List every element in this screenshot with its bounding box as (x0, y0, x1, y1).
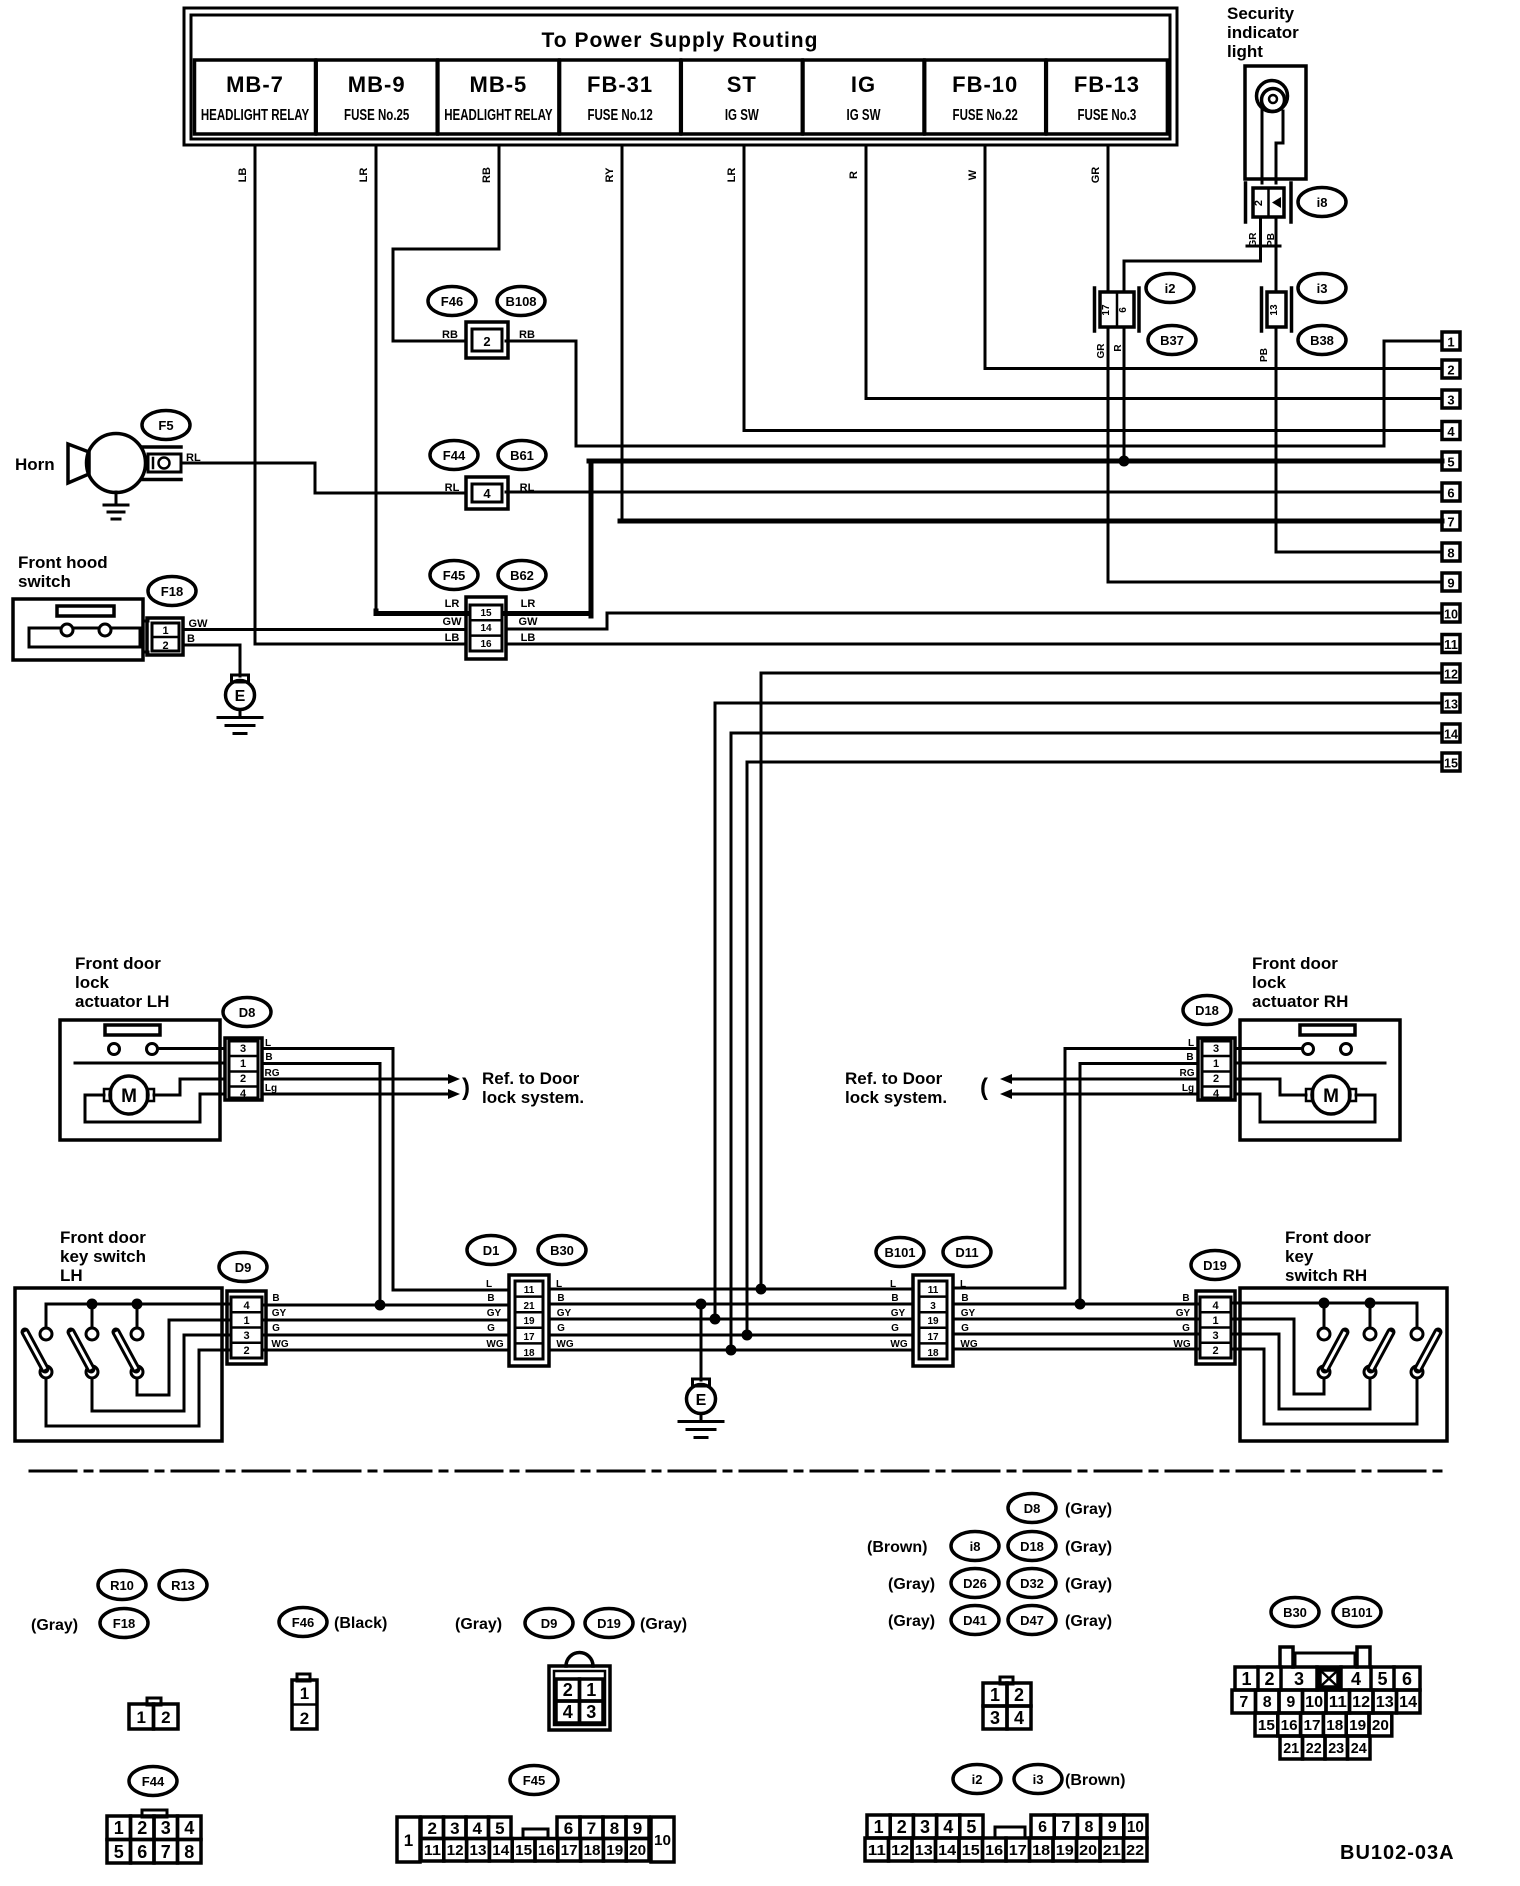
oval B30 (538, 1236, 586, 1265)
power cell MB-9 (316, 60, 437, 134)
svg-text:14: 14 (480, 623, 492, 634)
svg-text:G: G (891, 1323, 899, 1334)
svg-text:15: 15 (515, 1842, 532, 1859)
security indicator light box (1245, 66, 1306, 179)
svg-text:8: 8 (1447, 546, 1454, 561)
wire LB from MB-7 down (255, 145, 466, 644)
svg-text:RB: RB (519, 329, 535, 341)
svg-text:3: 3 (243, 1330, 249, 1342)
svg-text:GY: GY (487, 1308, 502, 1319)
svg-text:(Gray): (Gray) (1065, 1501, 1112, 1518)
oval F44 bottom (129, 1767, 177, 1796)
bus WG row mid section (549, 1349, 913, 1352)
pinout B30/B101 row2 (1232, 1690, 1420, 1713)
svg-text:G: G (272, 1323, 280, 1334)
svg-text:RL: RL (520, 482, 535, 494)
svg-text:8: 8 (184, 1842, 194, 1862)
key switch RH sw1 wire to GY (1231, 1319, 1324, 1394)
svg-text:Front door: Front door (60, 1228, 146, 1247)
key switch LH switch 1 contacts (40, 1328, 52, 1378)
svg-text:B108: B108 (505, 294, 536, 309)
junction terminal-14 riser (726, 1345, 737, 1356)
actuator RH motor right wire (1235, 1094, 1375, 1122)
svg-text:RL: RL (445, 482, 460, 494)
svg-text:5: 5 (1447, 455, 1454, 470)
oval D32 (1008, 1569, 1056, 1598)
svg-text:4: 4 (943, 1817, 953, 1837)
wire to terminal 5 (589, 459, 1442, 464)
svg-text:GR: GR (1090, 167, 1102, 184)
svg-text:WG: WG (890, 1339, 907, 1350)
svg-text:19: 19 (1349, 1717, 1366, 1734)
key switch RH switch 3 lever (1418, 1332, 1438, 1369)
connector F46/B108 box (466, 322, 508, 358)
svg-text:(Gray): (Gray) (1065, 1539, 1112, 1556)
svg-text:5: 5 (495, 1819, 504, 1838)
svg-text:2: 2 (563, 1680, 573, 1700)
svg-text:WG: WG (486, 1339, 503, 1350)
key switch LH bus junction sw2 (87, 1299, 98, 1310)
oval B108 (497, 287, 545, 316)
actuator RH slot (1300, 1025, 1355, 1035)
svg-text:1: 1 (990, 1685, 1000, 1705)
front hood switch contact a (61, 624, 73, 636)
svg-text:D18: D18 (1195, 1003, 1219, 1018)
key switch LH switch 2 contacts (86, 1328, 98, 1378)
key switch LH stem sw3 (136, 1304, 139, 1328)
oval D1 (467, 1236, 515, 1265)
svg-text:B: B (557, 1293, 564, 1304)
svg-text:light: light (1227, 42, 1263, 61)
oval B101 bottom (1333, 1598, 1381, 1627)
svg-text:14: 14 (1399, 1694, 1417, 1711)
oval i2 (1146, 274, 1194, 303)
bus B row left section (262, 1304, 509, 1307)
actuator RH box (1240, 1020, 1400, 1140)
thick riser joining LR to terminal-5 line (589, 461, 594, 616)
pinout B30/B101 keyway (1320, 1670, 1338, 1687)
svg-text:key: key (1285, 1247, 1314, 1266)
svg-text:3: 3 (930, 1301, 936, 1312)
svg-text:18: 18 (1326, 1717, 1343, 1734)
svg-text:F44: F44 (443, 448, 466, 463)
actuator RH contact wire (1235, 1062, 1385, 1065)
key switch LH stem sw2 (91, 1304, 94, 1328)
svg-text:D9: D9 (541, 1616, 558, 1631)
connector i8 pins (1253, 197, 1281, 208)
svg-text:LB: LB (521, 632, 536, 644)
oval D18 (1183, 996, 1231, 1025)
svg-text:MB-9: MB-9 (348, 72, 406, 97)
front hood switch contact b (99, 624, 111, 636)
oval B38 (1298, 326, 1346, 355)
wire GR from i8 to i2 (1124, 217, 1261, 292)
svg-text:16: 16 (985, 1842, 1003, 1859)
junction terminal-15 riser (742, 1330, 753, 1341)
svg-text:(Gray): (Gray) (31, 1617, 78, 1634)
junction B LH on bus (375, 1300, 386, 1311)
svg-text:(Gray): (Gray) (455, 1616, 502, 1633)
svg-text:9: 9 (633, 1819, 642, 1838)
pinout F45 cell 1 (397, 1817, 420, 1862)
svg-text:RB: RB (442, 329, 458, 341)
svg-text:6: 6 (1447, 486, 1454, 501)
svg-text:D8: D8 (1024, 1501, 1041, 1516)
svg-text:4: 4 (240, 1088, 247, 1100)
svg-text:GY: GY (272, 1308, 287, 1319)
svg-text:FB-13: FB-13 (1074, 72, 1140, 97)
svg-text:E: E (696, 1392, 707, 1409)
svg-text:2: 2 (897, 1817, 907, 1837)
connector i3 bracket (1262, 288, 1292, 331)
svg-text:1: 1 (136, 1708, 145, 1727)
pinout D9/D19 frame (549, 1666, 610, 1730)
svg-text:7: 7 (1061, 1819, 1070, 1836)
svg-text:9: 9 (1286, 1694, 1295, 1711)
svg-text:16: 16 (538, 1842, 555, 1859)
svg-text:11: 11 (1444, 637, 1458, 652)
svg-text:2: 2 (427, 1819, 436, 1838)
wire RY to terminal 7 (620, 519, 1442, 524)
svg-text:FUSE No.25: FUSE No.25 (344, 105, 409, 123)
svg-text:F45: F45 (443, 568, 465, 583)
svg-text:10: 10 (1305, 1694, 1323, 1711)
svg-text:Ref. to Door: Ref. to Door (482, 1069, 580, 1088)
svg-text:D41: D41 (963, 1613, 987, 1628)
svg-text:IG: IG (851, 72, 876, 97)
svg-text:MB-5: MB-5 (470, 72, 528, 97)
horn body (87, 434, 146, 493)
svg-text:GY: GY (961, 1308, 976, 1319)
pinout B30/B101 row1 cells (1235, 1667, 1420, 1690)
svg-text:3: 3 (920, 1817, 930, 1837)
terminal 6 (1442, 483, 1460, 501)
svg-text:RY: RY (604, 167, 616, 183)
pinout D9/D19 top cells (556, 1679, 603, 1701)
bulb right lead (1276, 111, 1283, 183)
power cell IG (803, 60, 924, 134)
connector i8 bracket (1246, 183, 1292, 222)
wire LR from ST down to terminal 4 (744, 145, 1442, 431)
svg-text:11: 11 (424, 1842, 441, 1859)
terminal 2 (1442, 360, 1460, 378)
key switch RH common bus (1231, 1303, 1417, 1328)
key switch LH switch 3 lever (116, 1332, 136, 1369)
oval D41 (951, 1606, 999, 1635)
svg-text:L: L (890, 1279, 896, 1290)
svg-text:19: 19 (927, 1316, 939, 1327)
power cell ST (681, 60, 802, 134)
svg-text:13: 13 (1269, 304, 1280, 316)
svg-text:B37: B37 (1160, 333, 1184, 348)
key switch RH switch 1 lever (1325, 1332, 1345, 1369)
svg-text:4: 4 (1213, 1088, 1220, 1100)
wire RG from D8 pin2 to door lock system (262, 1078, 448, 1081)
terminal 8 (1442, 543, 1460, 561)
svg-text:WG: WG (556, 1339, 573, 1350)
oval i3 bottom (1014, 1765, 1062, 1794)
svg-text:4: 4 (1014, 1708, 1024, 1728)
svg-text:LR: LR (445, 598, 460, 610)
oval F46 bottom (279, 1608, 327, 1637)
key switch RH switch 2 lever (1371, 1332, 1391, 1369)
svg-text:lock: lock (75, 973, 110, 992)
svg-text:1: 1 (162, 625, 168, 637)
svg-text:9: 9 (1447, 576, 1454, 591)
svg-text:Horn: Horn (15, 455, 55, 474)
svg-text:HEADLIGHT RELAY: HEADLIGHT RELAY (201, 105, 310, 123)
svg-text:B: B (272, 1293, 279, 1304)
svg-text:E: E (235, 688, 246, 705)
svg-text:4: 4 (1351, 1669, 1361, 1689)
actuator LH slot (105, 1025, 160, 1035)
oval i8 (1298, 188, 1346, 217)
oval B30 bottom (1271, 1598, 1319, 1627)
actuator RH motor (1306, 1076, 1356, 1114)
arrowhead RG LH (448, 1074, 460, 1084)
oval i8 bottom (951, 1532, 999, 1561)
key switch RH stem sw2 (1369, 1303, 1372, 1328)
svg-text:13: 13 (1444, 697, 1458, 712)
svg-text:15: 15 (480, 608, 492, 619)
svg-text:LB: LB (445, 632, 460, 644)
svg-text:3: 3 (1447, 393, 1454, 408)
svg-text:D19: D19 (597, 1616, 621, 1631)
key switch RH box (1240, 1288, 1447, 1441)
svg-text:17: 17 (1101, 304, 1112, 316)
wire GR from i2 to terminal 9 (1108, 327, 1442, 582)
arrowhead Lg LH (448, 1089, 460, 1099)
wire LR MB-9 corner to F45 pin15 (376, 611, 466, 614)
svg-text:3: 3 (1294, 1669, 1304, 1689)
svg-text:18: 18 (927, 1348, 939, 1359)
svg-text:3: 3 (240, 1043, 246, 1055)
svg-text:L: L (486, 1279, 492, 1290)
power cell FB-10 (925, 60, 1046, 134)
svg-text:2: 2 (243, 1345, 249, 1357)
svg-text:PB: PB (1259, 348, 1270, 362)
ground E hood switch (218, 675, 262, 734)
svg-text:18: 18 (584, 1842, 601, 1859)
oval D8 bottom (1008, 1494, 1056, 1523)
svg-text:2: 2 (300, 1709, 309, 1728)
svg-text:4: 4 (472, 1819, 482, 1838)
terminal 15 (1442, 753, 1460, 771)
separator dash-dot line (30, 1470, 1448, 1473)
terminal 5 (1442, 452, 1460, 470)
oval D11 (943, 1238, 991, 1267)
ground E center (679, 1379, 723, 1438)
svg-text:2: 2 (1014, 1685, 1024, 1705)
svg-text:D1: D1 (483, 1243, 500, 1258)
svg-text:LR: LR (726, 168, 738, 183)
svg-text:R13: R13 (171, 1578, 195, 1593)
bus G row mid section (549, 1334, 913, 1337)
front hood switch plate (29, 628, 140, 647)
terminal 13 (1442, 694, 1460, 712)
bus GY row right section (953, 1318, 1200, 1321)
svg-text:14: 14 (938, 1842, 957, 1859)
wire RY from FB-31 down (621, 145, 624, 519)
oval F18 bottom (100, 1609, 148, 1638)
wire LB from B62 to terminal 11 (506, 643, 1442, 646)
svg-text:D8: D8 (239, 1005, 256, 1020)
oval F44 (430, 441, 478, 470)
key switch RH bus junction sw1 (1319, 1298, 1330, 1309)
pinout F44 tab (142, 1810, 167, 1817)
connector D19 box (1196, 1291, 1235, 1364)
wire L from D8 pin3 to D1 (262, 1049, 509, 1291)
oval F45 (430, 561, 478, 590)
key switch RH stem sw1 (1323, 1303, 1326, 1328)
svg-text:actuator RH: actuator RH (1252, 992, 1348, 1011)
connector i2 box (1100, 292, 1134, 327)
svg-text:3: 3 (161, 1818, 171, 1838)
svg-text:B: B (1186, 1052, 1193, 1063)
bus B row mid section (549, 1303, 913, 1306)
svg-text:2: 2 (1447, 363, 1454, 378)
svg-text:BU102-03A: BU102-03A (1340, 1842, 1455, 1864)
wire L from D18 pin3 to B101 (953, 1049, 1198, 1289)
bus GY row left section (262, 1319, 509, 1322)
svg-text:3: 3 (450, 1819, 459, 1838)
oval i2 bottom (953, 1765, 1001, 1794)
oval R10 (98, 1571, 146, 1600)
bulb left lead (1261, 110, 1264, 183)
svg-text:GR: GR (1096, 343, 1107, 359)
junction terminal-13 riser (710, 1314, 721, 1325)
svg-text:11: 11 (524, 1285, 535, 1296)
svg-text:7: 7 (1239, 1694, 1248, 1711)
horn connector box (148, 454, 181, 472)
svg-text:1: 1 (1213, 1058, 1219, 1070)
svg-text:WG: WG (1173, 1339, 1190, 1350)
svg-text:G: G (557, 1323, 565, 1334)
svg-text:LB: LB (237, 168, 249, 183)
pinout B30/B101 row4 (1280, 1736, 1370, 1759)
svg-text:WG: WG (271, 1339, 288, 1350)
security bulb (1257, 81, 1288, 112)
svg-text:16: 16 (480, 639, 492, 650)
svg-text:24: 24 (1351, 1740, 1368, 1757)
bus G row right section (953, 1333, 1200, 1336)
svg-text:3: 3 (586, 1702, 596, 1722)
key switch RH sw2 wire to G (1231, 1334, 1370, 1409)
connector F45/B62 box (466, 597, 506, 659)
svg-text:W: W (967, 169, 979, 180)
pinout 4pin tab (1000, 1677, 1013, 1684)
pinout F44 cells 5-8 (107, 1840, 201, 1864)
svg-text:1: 1 (1447, 335, 1454, 350)
actuator RH contact link (1235, 1047, 1302, 1050)
svg-text:17: 17 (561, 1842, 578, 1859)
svg-text:B38: B38 (1310, 333, 1334, 348)
pinout F45 cells 6-9 (557, 1817, 649, 1839)
svg-text:4: 4 (243, 1300, 250, 1312)
svg-text:D18: D18 (1020, 1539, 1044, 1554)
wire LR from MB-9 down (375, 145, 378, 612)
wire to terminal 15 (747, 762, 1442, 1335)
svg-text:LH: LH (60, 1266, 83, 1285)
key switch RH switch 1 contacts (1318, 1328, 1330, 1378)
wire B from D8 pin1 to bus (262, 1064, 380, 1306)
actuator LH contact a (109, 1044, 120, 1055)
connector B101/D11 box (913, 1275, 953, 1366)
svg-text:8: 8 (1085, 1819, 1094, 1836)
svg-text:19: 19 (1056, 1842, 1074, 1859)
key switch RH sw3 wire to WG (1231, 1349, 1417, 1424)
actuator LH motor left wire (85, 1094, 225, 1122)
pinout 4pin cells 1-2 (983, 1683, 1031, 1706)
terminal 4 (1442, 422, 1460, 440)
svg-text:(Brown): (Brown) (1065, 1772, 1125, 1789)
svg-text:Ref. to Door: Ref. to Door (845, 1069, 943, 1088)
svg-text:FUSE No.22: FUSE No.22 (953, 105, 1018, 123)
svg-text:12: 12 (1444, 667, 1458, 682)
pinout F45 cells 11-20 (421, 1839, 649, 1862)
svg-text:i2: i2 (972, 1772, 983, 1787)
bus WG row left section (262, 1349, 509, 1352)
power cell FB-31 (560, 60, 681, 134)
svg-text:Lg: Lg (1182, 1083, 1194, 1094)
pinout D9/D19 handle (566, 1653, 593, 1667)
wire B row to ground E (700, 1304, 703, 1380)
wire W from FB-10 down to terminal 2 (985, 145, 1442, 369)
svg-text:15: 15 (962, 1842, 980, 1859)
pinout B30/B101 row3 (1255, 1713, 1392, 1736)
svg-text:B101: B101 (1341, 1605, 1372, 1620)
oval F5 (142, 411, 190, 440)
svg-text:GW: GW (443, 616, 463, 628)
svg-text:B61: B61 (510, 448, 534, 463)
svg-text:Front door: Front door (1285, 1228, 1371, 1247)
key switch LH sw2 wire to G (92, 1335, 231, 1411)
wire to terminal 14 (731, 733, 1442, 1350)
svg-text:(Black): (Black) (334, 1615, 387, 1632)
svg-text:switch RH: switch RH (1285, 1266, 1367, 1285)
svg-text:i8: i8 (970, 1539, 981, 1554)
oval B37 (1148, 326, 1196, 355)
svg-text:To Power Supply Routing: To Power Supply Routing (542, 29, 819, 52)
pinout 4pin cells 3-4 (983, 1706, 1031, 1729)
svg-text:5: 5 (966, 1817, 976, 1837)
svg-text:GY: GY (1176, 1308, 1191, 1319)
svg-text:2: 2 (1264, 1669, 1274, 1689)
svg-text:B62: B62 (510, 568, 534, 583)
wire LR from B62 to riser (506, 611, 591, 616)
svg-text:FUSE No.3: FUSE No.3 (1077, 105, 1136, 123)
junction ground on B row (696, 1299, 707, 1310)
svg-text:Front hood: Front hood (18, 553, 108, 572)
terminal 11 (1442, 635, 1460, 653)
key switch RH switch 3 contacts (1411, 1328, 1423, 1378)
svg-text:6: 6 (137, 1842, 147, 1862)
pinout i2/i3 cells 6-10 (1031, 1815, 1147, 1838)
svg-text:FUSE No.12: FUSE No.12 (587, 105, 652, 123)
actuator RH contact a (1303, 1044, 1314, 1055)
svg-text:(Gray): (Gray) (888, 1613, 935, 1630)
svg-text:6: 6 (1038, 1819, 1047, 1836)
svg-text:1: 1 (1212, 1315, 1218, 1327)
actuator LH box (60, 1020, 220, 1140)
svg-text:12: 12 (891, 1842, 909, 1859)
svg-text:): ) (462, 1074, 470, 1101)
svg-text:D11: D11 (955, 1245, 978, 1260)
svg-text:(Gray): (Gray) (1065, 1576, 1112, 1593)
svg-text:i8: i8 (1317, 195, 1328, 210)
horn connector bracket (143, 447, 181, 480)
svg-text:2: 2 (483, 334, 490, 349)
